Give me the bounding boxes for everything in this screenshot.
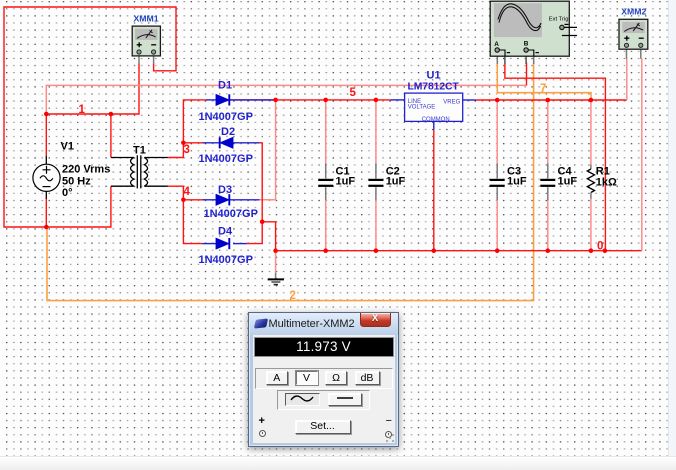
wire net 1: XMM1 plus terminal down to V1 top — [46, 64, 139, 157]
wire net 7: U1 output rail to XMM2 plus — [476, 59, 627, 101]
capacitor C1 1uF — [318, 163, 355, 200]
svg-text:1kΩ: 1kΩ — [596, 177, 617, 189]
svg-text:XMM1: XMM1 — [134, 13, 159, 23]
wire net 2 loop: V1 bottom to XMM1 via left and top edges — [4, 7, 176, 227]
junction node 3 — [181, 141, 186, 146]
wire: C2 leads — [375, 100, 377, 251]
svg-text:VREG: VREG — [443, 100, 460, 106]
svg-text:R1: R1 — [596, 165, 610, 177]
capacitor C4 1uF — [540, 163, 577, 200]
svg-text:1uF: 1uF — [336, 176, 356, 188]
svg-text:U1: U1 — [427, 69, 441, 81]
oscilloscope XSC1 — [490, 1, 577, 64]
transformer T1 — [111, 145, 168, 189]
svg-text:4: 4 — [184, 186, 191, 198]
wire: C3 leads — [496, 100, 498, 251]
capacitor C3 1uF — [490, 163, 527, 200]
wire net 7 orange: scope A+ to R1 top — [497, 64, 591, 100]
svg-text:T1: T1 — [133, 145, 146, 157]
junctions node 1 — [44, 112, 113, 117]
junctions node 5 rail — [273, 98, 378, 103]
svg-text:D3: D3 — [218, 184, 232, 196]
svg-text:V1: V1 — [61, 141, 74, 153]
svg-text:0: 0 — [597, 241, 603, 253]
multimeter XMM2 — [619, 7, 648, 59]
svg-text:VOLTAGE: VOLTAGE — [408, 105, 435, 111]
right scrollbar strip — [668, 0, 676, 470]
diode D4 1N4007GP — [199, 226, 253, 267]
wire net 0: bottom ground rail — [276, 59, 642, 251]
svg-text:D1: D1 — [218, 80, 232, 92]
svg-text:XMM2: XMM2 — [621, 7, 646, 17]
wire: C4 leads — [547, 100, 549, 251]
svg-text:Ext Trig: Ext Trig — [549, 17, 569, 23]
wire net 0: scope A- down to ground rail — [505, 64, 606, 251]
bottom scrollbar strip — [0, 456, 676, 470]
svg-text:1N4007GP: 1N4007GP — [199, 254, 253, 266]
svg-text:1uF: 1uF — [558, 176, 578, 188]
capacitor C2 1uF — [368, 163, 405, 200]
multimeter XMM1 — [132, 13, 160, 64]
junctions node 7 rail — [495, 98, 593, 103]
wire: R1 leads — [590, 100, 592, 251]
svg-text:B: B — [524, 41, 529, 48]
svg-text:1: 1 — [79, 104, 86, 116]
svg-text:1uF: 1uF — [386, 176, 406, 188]
svg-text:3: 3 — [184, 144, 190, 156]
svg-text:220 Vrms: 220 Vrms — [62, 164, 110, 176]
svg-text:COMMON: COMMON — [422, 117, 450, 123]
wire: U1 common down to ground rail — [433, 130, 435, 251]
wire net 0 bridge: D2 anode / D4 cathode vertical and jog to ground rail — [233, 143, 276, 251]
wire net 1 salmon rail: V1 top up to y85 rail across to scope B+ — [46, 63, 526, 115]
svg-text:2: 2 — [290, 290, 296, 302]
wire: V1 bottom red stub — [45, 199, 47, 228]
junctions node 0 ground rail — [273, 248, 607, 253]
multimeter dialog window Multimeter-XMM2 — [248, 312, 399, 447]
svg-text:1N4007GP: 1N4007GP — [204, 208, 258, 220]
junction node 4 — [181, 198, 186, 203]
svg-text:5: 5 — [350, 87, 357, 99]
wire net 4: secondary bottom to D3 and D4 anodes — [168, 186, 203, 243]
wire net 5: D1/D3 cathodes rail to U1 input — [229, 100, 390, 200]
ground — [268, 273, 284, 285]
svg-text:7: 7 — [540, 83, 546, 95]
resistor R1 1kOhm — [587, 165, 617, 199]
svg-text:1N4007GP: 1N4007GP — [199, 111, 253, 123]
svg-text:D4: D4 — [218, 226, 233, 238]
wire: ground stem — [275, 251, 277, 273]
svg-text:1uF: 1uF — [507, 176, 527, 188]
diode D3 1N4007GP — [203, 184, 258, 220]
wire net 3: secondary top to D2 cathode and up to D1 anode — [168, 100, 206, 158]
diode D2 1N4007GP — [199, 126, 253, 165]
voltage regulator U1 LM7812CT — [390, 69, 476, 129]
svg-text:50 Hz: 50 Hz — [62, 175, 91, 187]
wire: C1 leads — [325, 100, 327, 251]
svg-text:1N4007GP: 1N4007GP — [199, 153, 253, 165]
AC source V1 — [33, 141, 110, 200]
junction node 2 at V1 bottom — [44, 225, 49, 230]
wire net 2 orange: V1 bottom down, bottom rail, up to scope B- — [47, 63, 534, 301]
svg-text:D2: D2 — [221, 126, 235, 138]
junction bridge D2/D4 to ground — [260, 220, 265, 225]
wire: transformer primary feeds — [46, 114, 111, 227]
svg-text:A: A — [494, 41, 499, 48]
svg-text:0°: 0° — [62, 187, 73, 199]
diode D1 1N4007GP — [199, 80, 253, 124]
svg-text:LM7812CT: LM7812CT — [408, 81, 460, 92]
